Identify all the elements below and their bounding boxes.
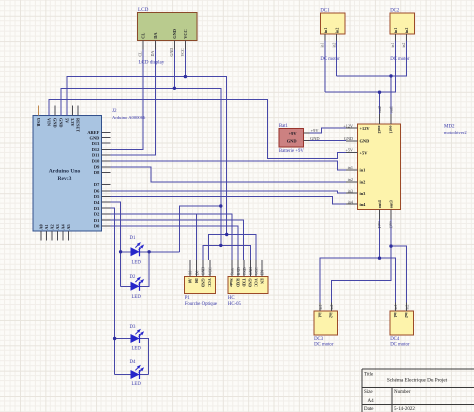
node: out2 rail (378, 91, 381, 94)
svg-text:Batterie +9V: Batterie +9V (279, 149, 304, 154)
DC1 pin labels outside (321, 43, 337, 48)
Arduino top pin GND2 stub (60, 106, 62, 116)
svg-text:in1: in1 (391, 43, 395, 48)
Arduino top pin 5V stub (66, 106, 68, 116)
svg-text:CL: CL (138, 51, 143, 57)
svg-text:+5V: +5V (346, 148, 353, 153)
P1 pin labels outside (189, 267, 213, 275)
node: GND rail / sensor GND (219, 244, 222, 247)
wire LED D1 row (121, 251, 180, 253)
wire DC1 pin2 drop (336, 40, 338, 76)
svg-text:in2: in2 (404, 313, 408, 318)
svg-text:D2: D2 (130, 275, 136, 280)
svg-text:Rev:3: Rev:3 (58, 176, 72, 182)
MD2 bottom pin out3 stub (390, 210, 392, 220)
svg-text:D5: D5 (94, 194, 100, 199)
Arduino right pin D3 stub (102, 207, 111, 209)
DC motor DC3 body (314, 311, 337, 335)
DC1 pin2 stub (336, 34, 338, 40)
Arduino right pin D13 stub (102, 142, 111, 144)
svg-text:+9V: +9V (311, 128, 320, 133)
Arduino top pin USB stub (orange) (38, 106, 40, 116)
DC4 pin names inside (393, 313, 408, 318)
svg-text:out3: out3 (389, 221, 394, 228)
Arduino right pin D9 stub (102, 166, 111, 168)
svg-text:GND: GND (202, 267, 206, 275)
LCD display U? body (138, 13, 198, 41)
svg-text:VIN: VIN (47, 118, 52, 127)
svg-text:D4: D4 (130, 360, 136, 365)
LED D3 (131, 329, 145, 343)
Arduino right pin D12 stub (102, 148, 111, 150)
svg-text:in2: in2 (329, 313, 333, 318)
wire D3 to LED D3/D4 anodes (111, 208, 115, 374)
wire LED D4 row (115, 374, 149, 376)
DC1 pin1 stub (324, 34, 326, 40)
svg-text:DC motor: DC motor (320, 57, 340, 62)
svg-text:GND: GND (169, 48, 174, 57)
node: LCD GND on GND wire (173, 87, 176, 90)
svg-text:J2: J2 (112, 109, 117, 114)
svg-text:in1: in1 (394, 28, 398, 33)
svg-text:in2: in2 (332, 43, 336, 48)
svg-text:A2: A2 (50, 224, 55, 229)
wire sensors GND distribution (203, 245, 250, 259)
svg-text:A0: A0 (187, 278, 191, 283)
wire LED D2 row and riser (121, 252, 150, 286)
HC pin labels outside (231, 267, 265, 275)
svg-text:+12V: +12V (360, 126, 371, 131)
svg-text:Number: Number (394, 390, 411, 395)
Arduino right pin GND stub (102, 137, 111, 139)
DC motor DC2 body (390, 13, 414, 34)
svg-text:out2: out2 (377, 106, 382, 113)
svg-text:A1: A1 (44, 224, 49, 229)
P1 pin D0 stub (196, 260, 198, 277)
svg-text:5-14-2022: 5-14-2022 (394, 407, 415, 412)
svg-text:motodriver2: motodriver2 (444, 130, 467, 135)
svg-text:D13: D13 (92, 141, 100, 146)
svg-text:RESET: RESET (76, 118, 81, 132)
MD2 bottom pin out4 stub (379, 210, 381, 220)
svg-text:out1: out1 (389, 126, 394, 134)
svg-text:+12V: +12V (343, 123, 353, 128)
svg-text:D6: D6 (94, 189, 100, 194)
wire D6 to MD2 in3 (111, 191, 347, 193)
svg-text:A0: A0 (189, 270, 193, 275)
svg-text:DC motor: DC motor (314, 343, 334, 348)
LCD pin GND stub (173, 41, 175, 50)
MD2 left pin labels outside (343, 123, 353, 204)
svg-text:3.3V: 3.3V (70, 118, 75, 127)
MD2 left pin GND stub (346, 140, 357, 142)
svg-text:A0: A0 (39, 224, 44, 229)
svg-text:LED: LED (132, 295, 142, 300)
Arduino right pin AREF stub (102, 132, 111, 134)
wire D10 to MD2 in1 (111, 161, 347, 170)
svg-text:VCC: VCC (180, 48, 185, 57)
MD2 left pin names inside (360, 126, 371, 207)
P1 pin names inside (187, 278, 211, 287)
svg-text:in2: in2 (348, 177, 353, 182)
svg-text:in2: in2 (330, 305, 334, 310)
svg-text:A3: A3 (55, 224, 60, 229)
wire LCD GND drop (173, 50, 175, 89)
Arduino right pin D7 stub (102, 183, 111, 185)
svg-text:GND: GND (172, 29, 177, 39)
svg-text:Arduino Uno: Arduino Uno (49, 169, 81, 175)
svg-text:in3: in3 (360, 191, 367, 196)
HC pin RXD stub (237, 260, 239, 277)
svg-text:VCC: VCC (254, 278, 258, 287)
MD2 top pin out2 stub (379, 114, 381, 124)
node: out1 rail (389, 74, 392, 77)
svg-text:D2: D2 (94, 212, 99, 217)
HC pin names inside (229, 278, 263, 287)
Arduino Uno J2 body (33, 116, 102, 232)
svg-text:in1: in1 (360, 168, 366, 173)
P1 pin VCC stub (209, 260, 211, 277)
svg-text:Fourche Optique: Fourche Optique (185, 302, 217, 307)
DC3 pin2 stub (330, 302, 332, 311)
svg-text:in1: in1 (348, 165, 353, 170)
svg-text:P1: P1 (185, 296, 191, 301)
wire LCD VCC drop (184, 50, 186, 77)
svg-text:DC2: DC2 (390, 8, 400, 13)
wire 5V rail: Arduino 5V to sensors VCC (67, 77, 227, 235)
svg-text:D12: D12 (92, 147, 100, 152)
MD2 top pin names inside (377, 126, 394, 134)
Arduino right pin D8 stub (102, 171, 111, 173)
DC1 pin names inside (324, 28, 340, 33)
Bat1 pin GND stub (303, 140, 309, 142)
Arduino right pin D0 stub (102, 225, 111, 227)
svg-text:out4: out4 (377, 221, 382, 228)
MD2 left pin in2 stub (346, 181, 357, 183)
Arduino top pin GND1 stub (54, 106, 56, 116)
opto sensor P1 body (185, 277, 216, 294)
svg-text:VCC: VCC (183, 29, 188, 39)
svg-text:TXD: TXD (243, 267, 247, 275)
svg-text:+5V: +5V (360, 150, 369, 155)
svg-text:in2: in2 (405, 305, 409, 310)
P1 pin GND stub (202, 260, 204, 277)
svg-text:D3: D3 (130, 325, 136, 330)
svg-text:D1: D1 (94, 218, 99, 223)
node: GND rail / LED return (219, 204, 222, 207)
DC3 pin names inside (318, 313, 333, 318)
Arduino right pin D1 stub (102, 219, 111, 221)
MD2 bottom pin names inside (377, 199, 394, 208)
svg-text:Size: Size (364, 390, 373, 395)
node: out3 tee (389, 244, 392, 247)
wire out1 riser (390, 76, 392, 114)
DC2 pin labels outside (391, 43, 406, 48)
DC4 pin2 stub (406, 302, 408, 311)
LCD pin names inside (141, 29, 189, 39)
svg-text:in2: in2 (360, 180, 366, 185)
svg-text:in3: in3 (348, 188, 353, 193)
P1 pin A0 stub (189, 260, 191, 277)
svg-text:in4: in4 (360, 202, 367, 207)
MD2 top pin out1 stub (390, 114, 392, 124)
svg-text:GND: GND (360, 139, 370, 144)
svg-text:EN: EN (259, 278, 263, 284)
svg-text:HC-05: HC-05 (228, 302, 242, 307)
Arduino right pin D2 stub (102, 213, 111, 215)
wire D5 to MD2 in4 (111, 197, 347, 205)
MD2 left pin in4 stub (346, 203, 357, 205)
Arduino right pin D6 stub (102, 190, 111, 192)
wire D4 to LED D1/D2 anodes (111, 202, 121, 286)
svg-text:DC motor: DC motor (390, 57, 410, 62)
wire D0 to HC RXD (111, 226, 239, 260)
Bat1 pin names inside (287, 131, 298, 143)
Arduino right pin D5 stub (102, 196, 111, 198)
svg-text:DA: DA (153, 32, 158, 39)
MD2 bottom pin labels outside (377, 221, 394, 228)
svg-text:out4: out4 (377, 199, 382, 208)
svg-text:VCC: VCC (255, 267, 259, 275)
wire LED cathode return to GND rail (180, 206, 221, 252)
svg-text:in1: in1 (321, 43, 325, 48)
Arduino bottom pins A0-A5 stubs (40, 231, 42, 240)
svg-text:in2: in2 (335, 28, 339, 33)
HC pin GND stub (249, 260, 251, 277)
svg-text:EN: EN (261, 270, 265, 275)
svg-text:TXD: TXD (241, 278, 245, 286)
svg-text:D8: D8 (94, 170, 100, 175)
svg-text:GND: GND (90, 135, 100, 140)
battery Bat1 body (279, 129, 303, 147)
wire Bat1 GND to MD2 GND (309, 140, 346, 142)
Arduino right pin D4 stub (102, 201, 111, 203)
Arduino right pin D10 stub (102, 160, 111, 162)
svg-text:in1: in1 (324, 28, 328, 33)
LCD pin CL stub (142, 41, 144, 50)
svg-text:out2: out2 (377, 126, 382, 134)
svg-text:D4: D4 (94, 200, 100, 205)
DC2 pin1 stub (395, 34, 397, 40)
node: 5V rail / sensor VCC (225, 233, 228, 236)
svg-text:LED: LED (132, 261, 142, 266)
svg-text:in1: in1 (394, 305, 398, 310)
svg-text:D1: D1 (130, 236, 136, 241)
svg-text:GND: GND (200, 278, 204, 287)
MD2 top pin labels outside (377, 106, 394, 113)
svg-text:+9V: +9V (289, 131, 298, 136)
Arduino top pin names inside (36, 118, 81, 132)
Arduino right pin D11 stub (102, 154, 111, 156)
svg-text:in2: in2 (405, 28, 409, 33)
svg-text:DC motor: DC motor (390, 343, 410, 348)
MD2 left pin in1 stub (346, 169, 357, 171)
svg-text:State: State (229, 278, 233, 287)
Arduino bottom pin names A0-A5 inside (39, 223, 71, 229)
svg-text:GND: GND (344, 136, 353, 141)
Arduino top pin 3.3V stub (72, 106, 74, 116)
svg-text:LCD: LCD (138, 7, 149, 13)
svg-text:D3: D3 (94, 206, 100, 211)
svg-text:MD2: MD2 (444, 125, 455, 130)
svg-text:out1: out1 (389, 106, 394, 113)
svg-text:D0: D0 (194, 278, 198, 283)
svg-text:in1: in1 (319, 305, 323, 310)
motor driver MD2 body (357, 124, 400, 210)
wire D9 to MD2 in2 (111, 167, 347, 182)
svg-text:A4: A4 (368, 399, 375, 404)
wire D2 trunk to P1 and HC State (111, 214, 232, 260)
Bat1 pin +9V stub (303, 132, 309, 134)
svg-text:in4: in4 (348, 199, 354, 204)
Arduino top pin RESET stub (77, 106, 79, 116)
wire motor rail out2: DC1.1 DC2.1 (325, 40, 395, 92)
svg-text:VCC: VCC (207, 278, 211, 287)
DC4 pin labels outside (394, 305, 409, 310)
svg-text:Arduino A000066: Arduino A000066 (112, 115, 146, 120)
svg-text:5V: 5V (64, 118, 69, 124)
svg-text:GND: GND (248, 278, 252, 287)
node: LED D1/D2 cathode (147, 250, 150, 253)
svg-text:Schéma Electrique Du Projet: Schéma Electrique Du Projet (387, 378, 448, 384)
svg-text:GND: GND (287, 138, 297, 143)
node: LCD VCC on 5V wire (184, 75, 187, 78)
svg-text:D10: D10 (92, 159, 100, 164)
wire out3 drop to DC3.2/DC4.2 (331, 220, 406, 303)
wire out2 riser (379, 92, 381, 114)
DC motor DC1 body (320, 13, 344, 34)
wire DC1 pin1 drop (324, 40, 326, 92)
wire sensors VCC distribution (209, 235, 256, 260)
DC4 pin1 stub (395, 302, 397, 311)
wire Bat1 +9V to MD2 +12V (309, 128, 346, 133)
svg-text:D7: D7 (94, 182, 100, 187)
node: out4 tee (378, 257, 381, 260)
MD2 left pin in3 stub (346, 192, 357, 194)
svg-text:A5: A5 (66, 224, 71, 229)
wire LCD DA to D11 (111, 50, 156, 156)
svg-text:A4: A4 (61, 223, 66, 229)
LCD pin DA stub (154, 41, 156, 50)
svg-text:in1: in1 (393, 313, 397, 318)
svg-text:USB: USB (36, 118, 41, 126)
Arduino top pin VIN stub (48, 106, 50, 116)
svg-text:DA: DA (150, 51, 155, 57)
title block frame (362, 369, 474, 412)
MD2 left pin +5V stub (346, 152, 357, 154)
svg-text:Title: Title (364, 372, 374, 377)
wire VIN rail: Arduino VIN to MD2 +5V (49, 100, 346, 159)
MD2 left pin +12V stub (346, 127, 357, 129)
HC pin EN stub (261, 260, 263, 277)
svg-text:out3: out3 (389, 200, 394, 208)
HC pin State stub (231, 260, 233, 277)
LCD pin VCC stub (184, 41, 186, 50)
wire GND rail: Arduino GND to sensors GND (61, 88, 221, 245)
node: LED D1 anode (119, 250, 122, 253)
svg-text:DC4: DC4 (390, 337, 400, 342)
svg-text:LED: LED (132, 347, 142, 352)
LED D1 (131, 242, 145, 256)
HC pin TXD stub (243, 260, 245, 277)
svg-text:in2: in2 (402, 43, 406, 48)
svg-text:D11: D11 (92, 153, 99, 158)
wire motor rail out1: DC1.2 DC2.2 (337, 40, 407, 76)
DC3 pin labels outside (319, 305, 334, 310)
svg-text:DC1: DC1 (320, 8, 330, 13)
LED D4 (131, 365, 145, 379)
LED D2 (131, 277, 145, 291)
svg-text:VCC: VCC (209, 267, 213, 275)
svg-text:RXD: RXD (235, 278, 239, 287)
svg-text:in1: in1 (318, 313, 322, 318)
LCD pin labels outside (138, 48, 186, 57)
svg-text:GND: GND (310, 136, 320, 141)
svg-text:RXD: RXD (237, 267, 241, 275)
wire out4 drop to DC3.1/DC4.1 rail (320, 220, 395, 303)
svg-text:GND: GND (249, 267, 253, 275)
DC3 pin1 stub (319, 302, 321, 311)
svg-text:DC3: DC3 (314, 337, 324, 342)
svg-text:Bat1: Bat1 (279, 124, 289, 129)
svg-text:Date: Date (364, 407, 374, 412)
svg-text:D9: D9 (94, 165, 100, 170)
DC2 pin names inside (394, 28, 409, 33)
bluetooth HC-05 body (228, 277, 268, 294)
svg-text:GND: GND (58, 118, 63, 128)
svg-text:CL: CL (141, 33, 146, 39)
DC motor DC4 body (390, 311, 413, 335)
Arduino right pin names inside (87, 130, 100, 229)
svg-text:HC: HC (228, 296, 235, 301)
title block texts (364, 372, 448, 412)
svg-text:GND: GND (52, 118, 57, 128)
wire D1 to HC TXD (111, 220, 244, 260)
wire LED D3 row (115, 339, 149, 375)
svg-text:D0: D0 (195, 270, 199, 275)
node: LED D3 anode (113, 337, 116, 340)
HC pin VCC stub (255, 260, 257, 277)
wire LCD CL to D12 (111, 50, 143, 150)
svg-text:LCD display: LCD display (139, 61, 165, 66)
svg-text:State: State (231, 267, 235, 275)
svg-text:LED: LED (132, 382, 142, 387)
svg-text:D0: D0 (94, 224, 100, 229)
DC2 pin2 stub (406, 34, 408, 40)
